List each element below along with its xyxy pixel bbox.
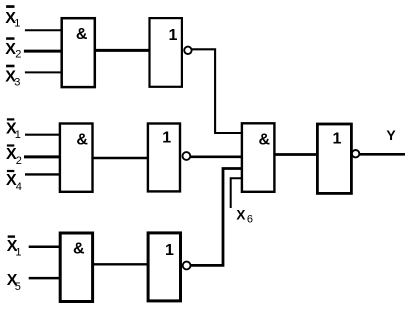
svg-text:4: 4 (16, 181, 22, 193)
svg-text:5: 5 (15, 281, 21, 293)
svg-text:6: 6 (247, 213, 253, 225)
svg-text:1: 1 (15, 129, 21, 141)
svg-text:1: 1 (165, 242, 174, 259)
svg-text:X: X (236, 207, 245, 222)
svg-text:2: 2 (15, 49, 21, 61)
svg-text:1: 1 (15, 246, 21, 258)
svg-text:&: & (73, 241, 85, 258)
svg-text:&: & (76, 132, 88, 149)
svg-text:Y: Y (386, 127, 396, 143)
svg-text:&: & (76, 26, 88, 43)
svg-text:2: 2 (16, 155, 22, 167)
svg-text:1: 1 (333, 130, 342, 147)
svg-text:3: 3 (14, 76, 20, 88)
svg-text:1: 1 (162, 130, 171, 147)
svg-text:1: 1 (14, 18, 20, 30)
svg-text:1: 1 (169, 27, 178, 44)
svg-text:&: & (259, 132, 271, 149)
